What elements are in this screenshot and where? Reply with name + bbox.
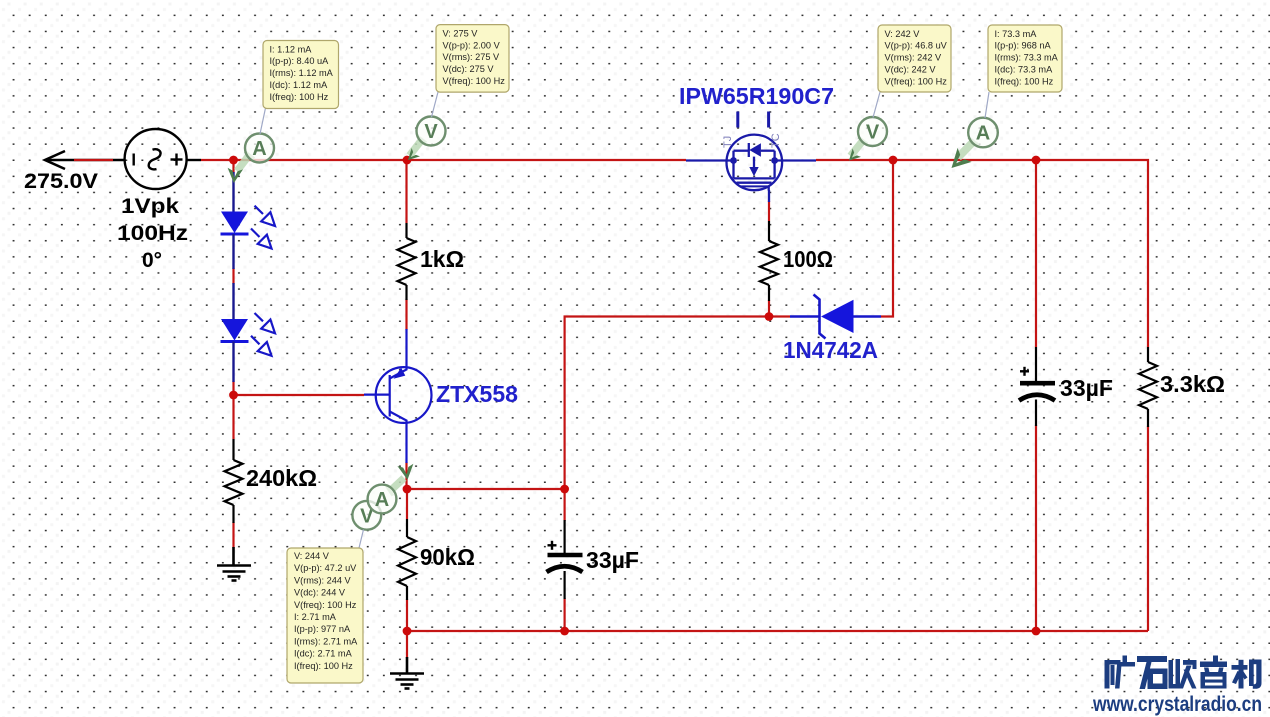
svg-text:I(rms): 73.3 mA: I(rms): 73.3 mA [995,53,1059,63]
wire top rail red: MOSFET source to right rail corner, down right side [816,160,1148,347]
wire red stub below node A1 [232,160,234,173]
svg-text:1N4742A: 1N4742A [783,337,878,363]
wire red 1k to transistor collector [405,299,407,330]
zener diode D1 1N4742A [790,295,881,339]
svg-text:V(dc): 242 V: V(dc): 242 V [885,65,937,75]
node dot right cap top [1032,156,1041,165]
wire red 90k to bottom rail and ground [406,599,408,658]
node dot LED-240k-base [229,391,238,400]
svg-text:I(rms): 1.12 mA: I(rms): 1.12 mA [270,68,334,78]
svg-text:I(p-p): 977 nA: I(p-p): 977 nA [294,624,351,634]
svg-text:100Hz: 100Hz [117,222,188,245]
svg-text:V: 275 V: V: 275 V [443,28,479,38]
wire red 100R to zener node [768,300,770,317]
svg-text:275.0V: 275.0V [24,170,98,193]
svg-text:TJ: TJ [722,136,734,148]
wire red top rail to 1k resistor [405,160,407,223]
svg-text:V(rms): 244 V: V(rms): 244 V [294,575,352,585]
svg-text:0°: 0° [142,249,162,272]
svg-text:V(p-p): 46.8 uV: V(p-p): 46.8 uV [885,41,948,51]
svg-text:100Ω: 100Ω [783,246,833,272]
probe V3 voltage probe at MOSFET source [845,117,887,165]
TOOLTIPS [263,25,1062,683]
svg-text:IPW65R190C7: IPW65R190C7 [679,83,834,109]
svg-text:I(freq): 100 Hz: I(freq): 100 Hz [995,76,1054,86]
wire red mid cap bottom to rail [563,598,565,631]
MOSFET thermal pin labels TJ TC [722,133,782,148]
svg-text:90kΩ: 90kΩ [420,544,475,570]
svg-text:V(freq): 100 Hz: V(freq): 100 Hz [294,600,357,610]
wire red zener cathode-side net to top rail [881,160,893,317]
svg-text:I: 1.12 mA: I: 1.12 mA [270,44,313,54]
wire red 240k to ground [232,522,234,548]
tooltip leader lines [260,92,989,548]
tooltip probe A4 readings [988,25,1062,92]
wire red horizontal node E to mid cap [407,488,565,490]
tooltip probe V3 readings [878,25,951,92]
wire top rail red: source to MOSFET drain [201,159,686,161]
wire bottom rail red [407,630,1148,632]
wire red node B to transistor base [234,394,365,396]
probe A4 current probe at output rail [944,118,997,175]
wire red LED2 to 240k lead [232,381,234,439]
resistor 240k [225,439,243,523]
tooltip probe V2 readings [436,25,509,93]
svg-text:33µF: 33µF [586,547,639,573]
LED LED2 [221,283,276,382]
node dot A1 [229,156,238,165]
svg-text:I(dc): 73.3 mA: I(dc): 73.3 mA [995,65,1054,75]
capacitor C1 33uF right [1019,347,1055,426]
wire red overlay on source left lead [74,159,113,161]
wire red node E to 90k [406,489,408,519]
svg-text:V(freq): 100 Hz: V(freq): 100 Hz [443,76,506,86]
ac source V1 [125,129,201,189]
svg-text:A: A [375,489,389,511]
svg-text:I(dc): 2.71 mA: I(dc): 2.71 mA [294,649,353,659]
svg-text:I: 2.71 mA: I: 2.71 mA [294,612,337,622]
svg-text:V(rms): 242 V: V(rms): 242 V [885,53,943,63]
svg-text:V(p-p): 47.2 uV: V(p-p): 47.2 uV [294,563,357,573]
svg-text:1Vpk: 1Vpk [121,195,179,218]
ground right [390,657,424,689]
probe VA5 combined probe at emitter node [352,464,415,530]
svg-text:V: V [866,122,880,144]
MOSFET Q2 IPW65R190C7 [686,112,816,203]
wire red transistor emitter to node E [405,462,407,489]
svg-text:I(dc): 1.12 mA: I(dc): 1.12 mA [270,80,329,90]
wire red mid cap top lead [563,489,565,521]
capacitor C2 33uF mid [547,520,583,599]
wire red mid cap node up to zener net corner [565,317,790,490]
svg-text:I(p-p): 8.40 uA: I(p-p): 8.40 uA [270,56,330,66]
svg-text:V(rms): 275 V: V(rms): 275 V [443,52,501,62]
resistor 1k [398,223,416,300]
resistor 3.3k [1139,347,1157,427]
svg-text:A: A [252,138,266,160]
PROBES [226,92,998,548]
svg-text:ZTX558: ZTX558 [436,381,518,407]
resistor 100R [760,221,778,301]
wire red top rail to right cap [1035,160,1037,347]
svg-text:33µF: 33µF [1060,375,1113,401]
probe V2 voltage probe at 1k node [404,117,446,165]
svg-text:V: 242 V: V: 242 V [885,29,921,39]
wire red right cap bottom to rail [1035,425,1037,631]
svg-text:V(p-p): 2.00 V: V(p-p): 2.00 V [443,40,501,50]
node dot bottom rail left [403,627,412,636]
wire red MOSFET source pin to 100R [768,201,770,221]
svg-text:www.crystalradio.cn: www.crystalradio.cn [1092,692,1262,716]
transistor Q1 ZTX558 [364,329,432,463]
svg-text:3.3kΩ: 3.3kΩ [1160,371,1225,397]
wire red between LED1 and LED2 [232,268,234,284]
node dot zener net top [889,156,898,165]
svg-text:I(freq): 100 Hz: I(freq): 100 Hz [270,92,329,102]
svg-text:I(freq): 100 Hz: I(freq): 100 Hz [294,661,353,671]
svg-text:A: A [976,123,990,145]
svg-text:V: 244 V: V: 244 V [294,551,330,561]
node dot emitter [403,485,412,494]
ground left [217,547,251,581]
svg-text:V(freq): 100 Hz: V(freq): 100 Hz [885,76,948,86]
svg-text:240kΩ: 240kΩ [246,465,317,491]
node dot 100R zener [765,312,774,321]
LOGO [1092,656,1262,717]
arrow output terminal left [45,151,125,169]
node dot bottom rail mid [560,627,569,636]
wire right rail lower red [1147,426,1149,631]
svg-text:I(p-p): 968 nA: I(p-p): 968 nA [995,41,1052,51]
node dot 1k tap [403,156,412,165]
resistor 90k [398,519,416,600]
tooltip probe VA5 readings [287,548,363,683]
svg-text:V(dc): 244 V: V(dc): 244 V [294,588,346,598]
svg-text:1kΩ: 1kΩ [420,246,464,272]
tooltip probe A1 readings [263,41,339,109]
svg-text:I(rms): 2.71 mA: I(rms): 2.71 mA [294,636,358,646]
probe A1 current probe at source node [226,134,274,184]
svg-text:TC: TC [770,133,782,148]
node dot mid cap top [560,485,569,494]
LED LED1 [221,172,276,269]
svg-text:I: 73.3 mA: I: 73.3 mA [995,29,1038,39]
svg-text:V(dc): 275 V: V(dc): 275 V [443,64,495,74]
node dot bottom rail right cap [1032,627,1041,636]
svg-text:V: V [424,121,438,143]
